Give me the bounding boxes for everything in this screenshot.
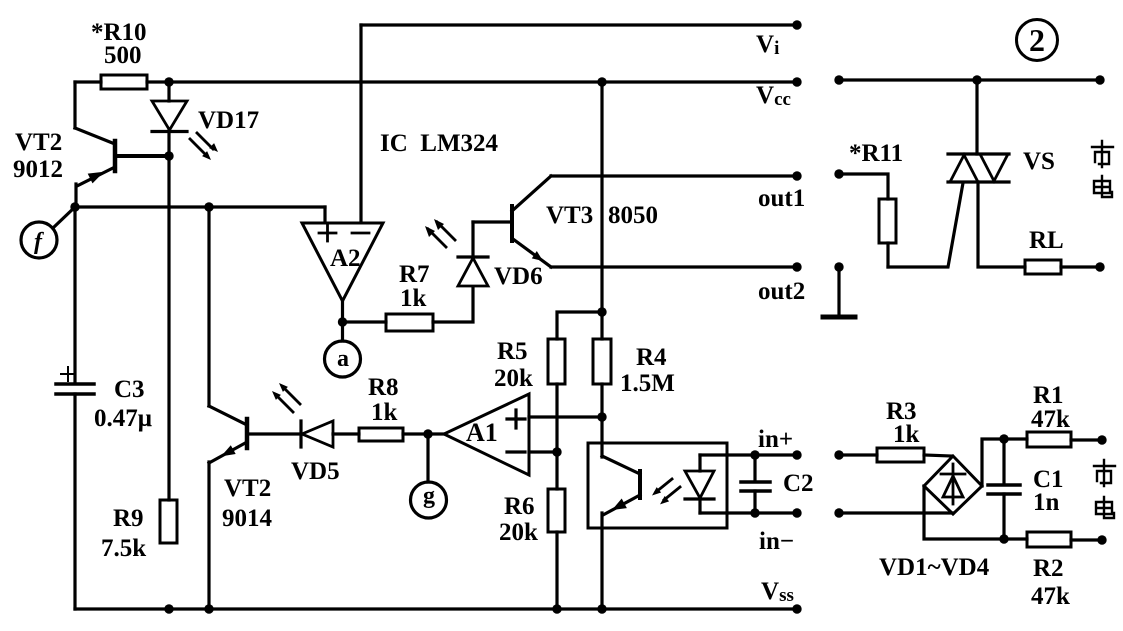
wire bridge + output [982, 439, 1027, 486]
svg-text:47k: 47k [1031, 406, 1070, 433]
triac VS [948, 152, 1009, 155]
svg-text:1.5M: 1.5M [620, 370, 675, 397]
wire A2 inverting input from Vi [359, 25, 362, 222]
resistor R7 [386, 314, 433, 331]
triac gate wire [888, 183, 963, 267]
wire in+ rail [727, 453, 798, 456]
svg-text:A1: A1 [466, 418, 498, 447]
node A1+ to R4 [597, 412, 606, 421]
wire Vcc to R4 vertical [600, 82, 603, 339]
VD5 light arrows [272, 383, 300, 412]
node R6-Vss [552, 604, 561, 613]
optocoupler phototransistor [638, 471, 642, 498]
node C2 top junction [750, 450, 759, 459]
svg-text:8050: 8050 [608, 202, 658, 229]
wire R4 down to opto [600, 384, 603, 457]
wire Vss rail [75, 607, 798, 610]
node triac top junction [972, 75, 981, 84]
node Vcc terminal [792, 77, 801, 86]
svg-text:R8: R8 [368, 374, 399, 401]
bridge VD1~VD4 [924, 456, 982, 514]
wire VD6 to VT3 base [473, 220, 512, 223]
optocoupler box [588, 443, 727, 528]
resistor R3 [877, 448, 924, 462]
transistor VT2 9012 [113, 141, 118, 171]
wire to triac [975, 80, 978, 154]
svg-text:Vi: Vi [756, 31, 779, 59]
node in+ terminal [792, 450, 801, 459]
svg-text:VD17: VD17 [198, 107, 259, 134]
svg-text:R7: R7 [399, 261, 430, 288]
wire R8 to A1 [403, 432, 444, 435]
wire C3 to Vss [73, 394, 76, 609]
svg-text:IC LM324: IC LM324 [380, 130, 499, 157]
ground [834, 262, 843, 271]
svg-text:R5: R5 [497, 338, 528, 365]
wire A1 + input [529, 415, 602, 418]
wire out1 rail [551, 174, 798, 177]
wire A1 - input [529, 450, 557, 453]
C3 polarity plus [61, 373, 75, 375]
svg-text:R6: R6 [504, 493, 535, 520]
node Vcc-VD17 junction [164, 77, 173, 86]
wire R7 to VD6 [433, 287, 473, 322]
text shi-dian bottom [1094, 460, 1115, 518]
A2 minus sign [352, 232, 369, 235]
node R9-Vss [164, 604, 173, 613]
svg-text:RL: RL [1029, 227, 1064, 254]
node R5-R6 divider tap [552, 447, 561, 456]
op-amp A1 [444, 394, 529, 475]
wire R5 to R6 [555, 384, 558, 489]
capacitor C2 [753, 455, 756, 481]
VD17 light arrows [190, 133, 218, 160]
wire f node horizontal [75, 205, 325, 208]
svg-text:1k: 1k [400, 285, 427, 312]
resistor R1 [1027, 432, 1071, 447]
resistor R4 [593, 339, 611, 384]
svg-text:9012: 9012 [13, 156, 63, 183]
resistor R5 [548, 339, 565, 384]
circled 2 [1017, 20, 1058, 61]
svg-text:in+: in+ [758, 426, 793, 453]
wire Vcc rail [75, 80, 101, 83]
resistor R8 [359, 428, 403, 441]
wire left terminal to R3 [834, 450, 843, 459]
resistor R2 [1027, 532, 1071, 547]
svg-text:47k: 47k [1031, 583, 1070, 610]
A1 plus minus [507, 410, 525, 452]
op-amp A2 [302, 223, 383, 301]
svg-text:Vss: Vss [761, 578, 794, 606]
resistor RL [1025, 260, 1061, 274]
capacitor C1 [1002, 439, 1005, 484]
diode VD5 [299, 421, 302, 447]
svg-text:VD6: VD6 [494, 263, 543, 290]
node Vcc-R4 junction [597, 77, 606, 86]
wire triac MT2 down [978, 182, 1025, 267]
wire bridge - output [924, 486, 1027, 539]
node g junction [423, 429, 432, 438]
svg-text:2: 2 [1029, 22, 1045, 58]
wire lower terminal [834, 508, 843, 517]
text shi-dian top (market power) [1092, 141, 1113, 197]
wire R5 top branch [557, 312, 602, 339]
node in- terminal [792, 508, 801, 517]
resistor R6 [548, 489, 565, 532]
A2 plus sign [319, 232, 336, 235]
svg-text:in−: in− [759, 528, 794, 555]
node 9014 emitter Vss [204, 604, 213, 613]
svg-text:g: g [423, 483, 435, 509]
node a junction [338, 317, 347, 326]
svg-text:Vcc: Vcc [756, 82, 791, 110]
svg-text:1n: 1n [1033, 489, 1060, 516]
resistor R9 [160, 500, 177, 543]
node emitter line junction [204, 202, 213, 211]
node Vi terminal [792, 20, 801, 29]
svg-text:f: f [34, 229, 44, 255]
svg-text:R4: R4 [636, 344, 667, 371]
wire right top rail [838, 78, 1101, 81]
diode VD6 [458, 258, 488, 286]
svg-text:VT2: VT2 [224, 475, 271, 502]
svg-text:VS: VS [1023, 148, 1055, 175]
wire Vi rail [361, 23, 798, 26]
svg-text:C3: C3 [114, 376, 145, 403]
node C2 bottom junction [750, 508, 759, 517]
optocoupler LED [698, 455, 701, 471]
node out2 terminal [792, 262, 801, 271]
svg-text:20k: 20k [499, 519, 538, 546]
node a [341, 322, 344, 341]
svg-text:500: 500 [104, 42, 142, 69]
svg-text:1k: 1k [371, 399, 398, 426]
wire to R7 [343, 320, 387, 323]
resistor R11 [886, 243, 889, 267]
wire in- rail [727, 511, 798, 514]
wire A2 output [341, 301, 344, 322]
svg-text:R9: R9 [113, 505, 144, 532]
transistor VT3 8050 [510, 206, 514, 241]
svg-text:VT3: VT3 [546, 202, 593, 229]
transistor VT2 9014 [207, 207, 210, 406]
svg-text:VD1~VD4: VD1~VD4 [879, 554, 990, 581]
wire out2 rail [551, 265, 798, 268]
node g [426, 434, 429, 482]
node Vss terminal [792, 604, 801, 613]
svg-text:20k: 20k [494, 365, 533, 392]
VD6 light arrows [425, 219, 455, 247]
capacitor C3 [56, 382, 94, 386]
node f [70, 202, 79, 211]
svg-text:A2: A2 [330, 245, 361, 272]
svg-text:C2: C2 [783, 470, 814, 497]
svg-text:out2: out2 [758, 278, 805, 305]
resistor R10 [101, 75, 147, 89]
svg-text:R1: R1 [1033, 382, 1064, 409]
node VD17-base junction [164, 151, 173, 160]
wire emitter node to C3 [73, 207, 76, 383]
node R5 branch [597, 307, 606, 316]
svg-text:R2: R2 [1033, 555, 1064, 582]
svg-text:VT2: VT2 [15, 129, 62, 156]
svg-text:a: a [337, 346, 349, 372]
node out1 terminal [792, 171, 801, 180]
svg-text:9014: 9014 [222, 505, 273, 532]
diode VD17 [167, 82, 170, 101]
svg-text:1k: 1k [893, 421, 920, 448]
wire R10 left to collector drop [73, 82, 76, 128]
svg-text:*R11: *R11 [849, 140, 903, 167]
wire R6 to Vss [555, 532, 558, 609]
svg-text:VD5: VD5 [291, 458, 340, 485]
node opto emitter Vss [597, 604, 606, 613]
svg-text:out1: out1 [758, 185, 805, 212]
opto light arrows [652, 479, 680, 504]
svg-text:7.5k: 7.5k [101, 535, 146, 562]
svg-text:0.47μ: 0.47μ [94, 405, 152, 432]
